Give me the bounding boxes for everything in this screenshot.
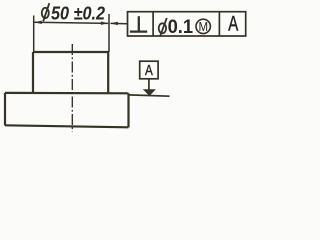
- extension line left of phi50 dimension: [33, 16, 35, 53]
- svg-text:0.1: 0.1: [168, 17, 194, 38]
- tolerance diameter symbol: [159, 18, 167, 37]
- base block top edge: [5, 92, 129, 95]
- arrowhead left of dimension line: [34, 21, 42, 24]
- center line (dash-dot): [71, 44, 73, 132]
- cylinder top edge: [33, 51, 109, 53]
- cylinder right edge: [107, 52, 109, 93]
- frame divider 1: [152, 12, 154, 36]
- leader line from dimension to feature control frame: [111, 22, 128, 24]
- datum feature symbol box A: [140, 61, 158, 79]
- extension line right of phi50 dimension: [108, 14, 110, 52]
- arrowhead of leader at extension line: [110, 22, 118, 25]
- datum symbol stem: [148, 79, 150, 91]
- dimension line phi50: [35, 22, 109, 23]
- svg-text:50 ±0.2: 50 ±0.2: [51, 2, 106, 23]
- base block left edge: [4, 93, 6, 126]
- feature control frame outline: [128, 12, 246, 36]
- svg-text:A: A: [228, 13, 238, 36]
- MMC modifier circle M: [196, 19, 210, 33]
- svg-text:M: M: [199, 19, 209, 34]
- base block right edge: [127, 93, 129, 127]
- frame divider 2: [218, 12, 220, 36]
- arrowhead right of dimension line: [101, 22, 109, 25]
- cylinder left edge: [32, 52, 34, 93]
- svg-text:A: A: [145, 63, 153, 79]
- base block bottom edge: [5, 125, 129, 127]
- perpendicularity symbol: [130, 16, 147, 31]
- datum surface extension line: [129, 95, 170, 96]
- datum filled triangle: [144, 90, 155, 96]
- dimension text: diameter symbol: [42, 3, 50, 21]
